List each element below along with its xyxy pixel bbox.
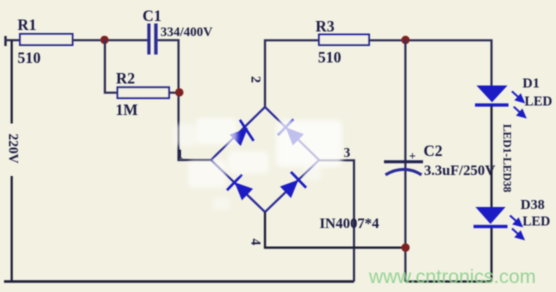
svg-text:3.3uF/250V: 3.3uF/250V bbox=[424, 163, 496, 179]
svg-text:334/400V: 334/400V bbox=[161, 24, 214, 39]
watermark white blob 6 bbox=[213, 197, 230, 210]
watermark white blob 3 bbox=[188, 160, 226, 188]
svg-text:C2: C2 bbox=[424, 143, 443, 160]
node junction dot B bbox=[175, 88, 183, 96]
wire: node 3 to right riser and down to AC rail bbox=[319, 160, 354, 281]
bridge diode D-b (node3 to node2, upper-right edge, faded) bbox=[278, 119, 304, 145]
svg-text:220V: 220V bbox=[6, 134, 21, 164]
svg-text:LED: LED bbox=[525, 93, 553, 108]
wire: C1 right to bridge node 1 (down at x=178.5) bbox=[158, 40, 211, 160]
svg-text:1M: 1M bbox=[116, 102, 139, 119]
resistor R1 bbox=[20, 34, 73, 45]
bridge rectifier diamond edges bbox=[211, 107, 319, 212]
LED D1 bbox=[475, 86, 509, 106]
watermark white blob 4 bbox=[228, 151, 269, 174]
wire: left vertical lower segment bbox=[11, 176, 13, 282]
svg-text:D38: D38 bbox=[521, 198, 545, 213]
capacitor C1 bbox=[147, 24, 157, 55]
svg-text:4: 4 bbox=[249, 239, 264, 246]
node junction dot A bbox=[100, 36, 108, 44]
svg-text:R1: R1 bbox=[18, 17, 37, 34]
wire: AC terminal to R1 bbox=[5, 39, 21, 41]
LED D1 emission arrows bbox=[512, 91, 525, 117]
svg-text:R3: R3 bbox=[316, 19, 335, 36]
bridge diode D-c (node4 to node1, lower-left edge) bbox=[227, 175, 253, 201]
wire: dot A down to R2 left bbox=[105, 40, 118, 93]
svg-text:LED: LED bbox=[523, 214, 551, 229]
bridge diode D-a (node1 to node2, upper-left edge) bbox=[230, 120, 254, 146]
wire: LED string bottom riser bbox=[490, 228, 492, 282]
svg-text:R2: R2 bbox=[116, 71, 135, 88]
capacitor C2 (electrolytic) bbox=[384, 162, 423, 175]
svg-text:C1: C1 bbox=[143, 8, 162, 25]
node junction dot C bbox=[401, 36, 409, 44]
wire: C2 branch vertical bbox=[404, 40, 406, 282]
svg-text:2: 2 bbox=[248, 76, 263, 83]
LED D38 emission arrows bbox=[510, 216, 523, 239]
resistor R3 bbox=[319, 35, 369, 46]
watermark white blob 1 bbox=[196, 118, 237, 145]
node junction dot D bbox=[401, 243, 409, 251]
watermark white blob 2 bbox=[276, 120, 342, 167]
svg-text:LED1-LED38: LED1-LED38 bbox=[501, 124, 513, 193]
bridge diode D-d (node4 to node3, lower-right edge) bbox=[280, 172, 306, 198]
svg-text:1: 1 bbox=[177, 147, 184, 162]
wire: bridge node 2 riser and top wire to R3 bbox=[265, 40, 319, 107]
wire: R3 to top-right corner bbox=[369, 40, 492, 85]
wire: left vertical upper segment bbox=[11, 40, 13, 123]
LED D38 bbox=[474, 207, 508, 227]
watermark white blob 5 bbox=[303, 165, 321, 180]
watermark white blob 0 bbox=[174, 124, 196, 146]
wire: R1 to C1 bbox=[73, 39, 148, 41]
svg-text:www.cntronics.com: www.cntronics.com bbox=[368, 266, 536, 288]
wire: negative link rail C2 to LED string bottom bbox=[406, 280, 492, 282]
wire: node 4 riser down and negative rail to C2 bbox=[265, 212, 406, 248]
svg-text:3: 3 bbox=[344, 145, 351, 160]
wire: R2 right to vertical bbox=[169, 92, 179, 94]
resistor R2 bbox=[118, 87, 170, 98]
svg-text:510: 510 bbox=[18, 50, 42, 67]
wire: bottom AC rail bbox=[4, 280, 354, 282]
svg-text:510: 510 bbox=[318, 50, 342, 67]
wire: LED string D1 to D38 bbox=[490, 106, 492, 207]
svg-text:D1: D1 bbox=[523, 77, 540, 92]
svg-text:+: + bbox=[409, 149, 416, 163]
terminal AC left tick bbox=[4, 36, 6, 46]
svg-text:IN4007*4: IN4007*4 bbox=[320, 216, 380, 232]
